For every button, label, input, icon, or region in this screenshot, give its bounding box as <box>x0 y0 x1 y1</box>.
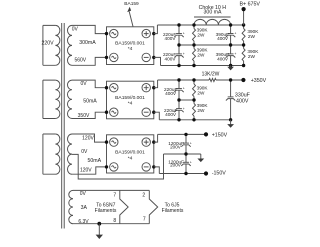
svg-text:+150V: +150V <box>212 133 228 139</box>
transformer T3 primary winding <box>43 134 60 174</box>
resistor R3 390K 2W <box>242 25 245 45</box>
ground stage2 <box>227 120 234 128</box>
svg-text:120V: 120V <box>80 167 92 173</box>
wire stage2 top rail left <box>158 79 209 81</box>
wire stage2 bottom rail <box>159 119 230 121</box>
svg-text:BA159//0.001: BA159//0.001 <box>115 150 145 156</box>
capacitor C5 220uF 400V <box>174 80 185 100</box>
transformer T2 primary winding <box>43 80 60 118</box>
wire stage3 bottom rail <box>159 173 206 175</box>
wire stage3 mid line <box>164 153 201 155</box>
wire U3 + to stage3 top rail <box>154 134 158 142</box>
svg-text:400V: 400V <box>217 36 229 41</box>
node filament ground tap <box>97 222 101 226</box>
node stage1 junctions <box>177 23 245 67</box>
svg-text:400V: 400V <box>236 98 249 104</box>
wire U1 - to bottom rail <box>154 57 161 65</box>
svg-text:B+ 675V: B+ 675V <box>240 1 261 7</box>
svg-text:+: + <box>183 52 185 56</box>
svg-text:2W: 2W <box>197 90 205 95</box>
svg-text:50mA: 50mA <box>88 158 102 164</box>
svg-text:7: 7 <box>143 217 146 223</box>
node U2 AC input bottom <box>105 111 108 114</box>
svg-text:8: 8 <box>113 218 116 224</box>
svg-text:*4: *4 <box>128 46 133 52</box>
svg-text:300mA: 300mA <box>79 40 96 46</box>
node U3 AC input top <box>105 140 108 143</box>
resistor R2 390K 2W <box>193 45 196 66</box>
node U1 + output <box>152 32 155 35</box>
svg-text:7: 7 <box>113 192 116 198</box>
terminal -150V <box>204 170 226 176</box>
capacitor C9 1200uF 200V <box>181 154 192 174</box>
capacitor C8 1200uF 200V <box>181 134 192 154</box>
node stage3 junctions <box>184 133 187 176</box>
svg-text:3A: 3A <box>81 205 88 211</box>
wire T3 center tap 0V <box>72 154 164 179</box>
svg-text:0V: 0V <box>80 81 87 87</box>
svg-text:+: + <box>183 107 185 111</box>
svg-text:+: + <box>234 32 236 36</box>
connector P2 to 6J5 <box>149 190 157 223</box>
svg-text:0V: 0V <box>81 149 88 155</box>
terminal B+ 675V <box>240 1 261 25</box>
svg-text:400V: 400V <box>165 36 177 41</box>
wire T3 secondary top tap 120V <box>72 134 107 142</box>
wire U2 - to stage2 bottom rail <box>154 112 160 120</box>
connector P1 to 6SN7 <box>120 190 128 223</box>
svg-text:2W: 2W <box>248 54 256 59</box>
svg-text:120V: 120V <box>82 135 94 141</box>
node U3 - output <box>152 165 155 168</box>
wire T2 secondary bottom tap 350V <box>72 112 107 118</box>
svg-text:400V: 400V <box>165 91 177 96</box>
svg-text:+: + <box>183 32 185 36</box>
svg-text:+: + <box>190 141 192 145</box>
svg-text:2: 2 <box>142 193 145 199</box>
capacitor C3 390uF 400V <box>226 25 237 45</box>
node U2 AC input top <box>105 86 108 89</box>
svg-text:Filaments: Filaments <box>95 208 117 214</box>
node U1 AC input top <box>105 32 108 35</box>
wire T1 secondary bottom tap 560V <box>72 57 107 65</box>
svg-text:400V: 400V <box>217 56 229 61</box>
wire stage1 top rail <box>157 24 243 26</box>
transformer T3 secondary winding 120-0-120 <box>68 134 73 174</box>
svg-text:+: + <box>190 161 192 165</box>
wire U3 - to stage3 bottom rail <box>154 167 160 174</box>
wire U2 + to stage2 top rail <box>154 80 158 88</box>
svg-text:400V: 400V <box>165 112 177 117</box>
label BA159 with arrow <box>124 1 139 26</box>
svg-text:+350V: +350V <box>251 78 267 84</box>
resistor R6 390K 2W <box>193 80 196 100</box>
wire stage1 mid rail <box>179 44 244 46</box>
terminal +350V <box>241 78 266 84</box>
transformer T2 secondary winding 350V/50mA <box>68 80 73 118</box>
transformer core <box>62 23 64 229</box>
svg-text:200V: 200V <box>170 163 182 168</box>
resistor R4 390K 2W <box>242 45 245 66</box>
svg-text:BA159: BA159 <box>124 1 139 7</box>
svg-text:BA159//0.001: BA159//0.001 <box>115 40 145 46</box>
resistor R7 390K 2W <box>193 100 196 120</box>
choke L1 10H 300mA <box>194 17 231 25</box>
wire stage2 top rail right <box>216 79 243 81</box>
capacitor C7 330uF 400V <box>226 80 235 120</box>
wire stage1 bottom rail <box>161 65 244 67</box>
ground stage1 <box>227 66 234 71</box>
svg-text:560V: 560V <box>74 57 86 63</box>
svg-text:0V: 0V <box>80 191 87 197</box>
wire stage2 mid rail <box>179 99 194 101</box>
svg-text:200V: 200V <box>170 144 182 149</box>
resistor R5 13K/2W <box>209 78 216 81</box>
wire filament bottom 6.3V <box>73 223 149 225</box>
bridge rectifier U3 BA159 <box>107 135 154 173</box>
capacitor C4 390uF 400V <box>226 45 237 66</box>
svg-text:*4: *4 <box>128 155 133 161</box>
svg-text:220V: 220V <box>41 41 54 47</box>
node U2 + output <box>152 86 155 89</box>
svg-text:50mA: 50mA <box>83 99 97 105</box>
node U3 + output <box>152 140 155 143</box>
resistor R1 390K 2W <box>193 25 196 45</box>
svg-text:+: + <box>234 52 236 56</box>
capacitor C2 220uF 400V <box>174 45 185 66</box>
wire T3 secondary bottom tap 120V <box>72 167 107 174</box>
node U2 - output <box>152 111 155 114</box>
svg-text:0V: 0V <box>72 26 79 32</box>
svg-text:Filaments: Filaments <box>162 208 184 214</box>
svg-text:*4: *4 <box>128 101 133 107</box>
svg-text:2W: 2W <box>197 108 205 113</box>
svg-text:BA159//0.001: BA159//0.001 <box>115 95 145 101</box>
wire T1 secondary top tap 0V <box>72 25 107 33</box>
svg-text:400V: 400V <box>165 56 177 61</box>
node U1 AC input bottom <box>105 56 108 59</box>
wire T2 secondary top tap 0V <box>72 80 107 88</box>
bridge rectifier U1 BA159 <box>107 27 154 65</box>
bridge rectifier U2 BA159 <box>107 81 154 119</box>
svg-text:-150V: -150V <box>212 170 227 176</box>
ground filament <box>96 224 103 239</box>
capacitor C1 220uF 400V <box>174 25 185 45</box>
svg-text:+: + <box>183 87 185 91</box>
capacitor C6 220uF 400V <box>174 100 185 120</box>
wire stage3 top rail <box>158 133 206 135</box>
transformer T1 primary winding 220V <box>43 25 60 65</box>
svg-text:2W: 2W <box>248 34 256 39</box>
svg-text:350V: 350V <box>78 113 90 119</box>
svg-text:2W: 2W <box>197 32 205 37</box>
svg-text:13K/2W: 13K/2W <box>202 71 220 77</box>
transformer T4 filament winding 6.3V 3A <box>69 190 73 223</box>
transformer T1 secondary winding 560V/300mA <box>68 25 73 65</box>
ground stage3 <box>197 154 204 162</box>
node U1 - output <box>152 56 155 59</box>
terminal +150V <box>204 132 228 138</box>
node stage2 junctions <box>177 78 232 121</box>
node U3 AC input bottom <box>105 165 108 168</box>
svg-text:300 mA: 300 mA <box>204 10 222 16</box>
svg-text:2W: 2W <box>197 52 205 57</box>
wire U1 + to top rail <box>154 25 158 34</box>
wire filament top 0V <box>73 189 149 191</box>
